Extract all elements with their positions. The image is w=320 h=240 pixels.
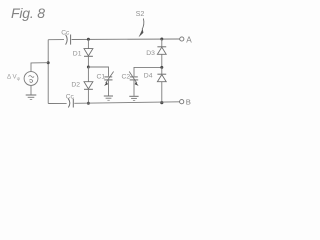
- node D1-D2 junction: [87, 66, 90, 69]
- wire D4 cathode: [161, 67, 163, 74]
- ground (source): [26, 95, 37, 100]
- wire bottom rail right segment: [74, 102, 179, 104]
- wire D2 anode: [87, 67, 89, 82]
- node D3-D4 junction: [160, 66, 163, 69]
- capacitor C2 (variable): [122, 72, 139, 86]
- wire left bus vertical: [47, 40, 49, 104]
- svg-text:C1: C1: [97, 73, 106, 80]
- node top rail / D3: [160, 38, 163, 41]
- node D4 / bottom rail: [160, 101, 163, 104]
- svg-text:S2: S2: [136, 9, 145, 18]
- diode D4: [144, 73, 166, 82]
- wire top rail right segment: [72, 38, 180, 41]
- capacitor Cc top: [61, 29, 70, 44]
- wire source top to left bus: [31, 63, 48, 72]
- diode D2: [71, 82, 93, 90]
- node D2 / bottom rail: [87, 102, 90, 105]
- label S2 with leader arrow: [136, 9, 145, 37]
- wire D1 anode: [87, 39, 89, 48]
- node top rail / D1: [87, 38, 90, 41]
- svg-text:Δ Vψ: Δ Vψ: [7, 74, 20, 82]
- diode D3: [146, 47, 166, 57]
- svg-text:C2: C2: [122, 73, 131, 80]
- wire C1 to ground: [108, 80, 110, 95]
- svg-text:A: A: [186, 36, 192, 45]
- svg-text:Cc: Cc: [66, 93, 75, 100]
- wire C2 top to D3-D4 junction: [134, 67, 162, 76]
- wire top rail left segment: [48, 39, 64, 41]
- wire bottom rail left segment: [48, 102, 66, 104]
- wire D1 cathode to junction: [87, 56, 89, 67]
- AC source VS: [24, 72, 38, 86]
- node source tap: [47, 61, 50, 64]
- capacitor Cc bottom: [66, 93, 75, 107]
- terminal B: [180, 98, 191, 107]
- terminal A: [180, 36, 193, 45]
- svg-text:D4: D4: [144, 73, 153, 80]
- capacitor C1 (variable): [97, 72, 114, 86]
- diode D1: [73, 49, 93, 58]
- svg-text:Cc: Cc: [61, 29, 70, 36]
- svg-text:D2: D2: [71, 82, 80, 89]
- wire source to ground: [30, 85, 32, 94]
- svg-text:Fig. 8: Fig. 8: [11, 5, 45, 21]
- wire D3 cathode: [161, 39, 163, 47]
- wire D2 cathode to bottom rail: [87, 89, 89, 103]
- wire D3 anode to junction: [161, 54, 163, 67]
- svg-text:D3: D3: [146, 50, 155, 57]
- wire mid-left junction to C1: [88, 67, 108, 76]
- ground C2: [129, 96, 138, 100]
- svg-text:D1: D1: [73, 51, 82, 58]
- svg-text:B: B: [186, 98, 191, 107]
- ground C1: [104, 96, 113, 100]
- wire D4 anode to bottom rail: [161, 82, 163, 103]
- wire C2 to ground: [133, 80, 135, 96]
